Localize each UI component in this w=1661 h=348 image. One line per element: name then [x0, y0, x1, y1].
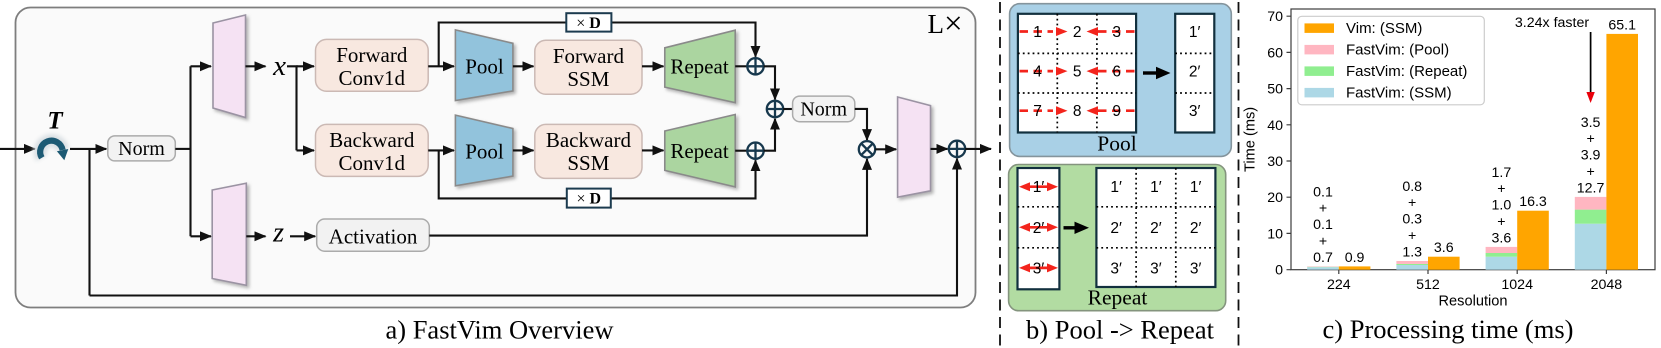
- wire multiplier to out-projection: [875, 148, 896, 150]
- wire Pool to Forward SSM: [513, 65, 534, 67]
- svg-text:+: +: [1497, 214, 1505, 230]
- wire input: [0, 148, 35, 150]
- wire Activation to multiplier: [429, 159, 867, 236]
- chart y tick labels: [1267, 9, 1283, 279]
- chart x tick marks: [1339, 270, 1607, 274]
- svg-text:7: 7: [1033, 103, 1042, 120]
- transpose icon glow: [40, 141, 62, 158]
- wire into x-projection: [191, 65, 212, 67]
- svg-text:3.9: 3.9: [1581, 148, 1601, 164]
- trapezoid z-projection: [212, 183, 246, 285]
- annotation arrow red head: [1586, 92, 1594, 103]
- separator dashed right: [1238, 2, 1240, 348]
- svg-text:40: 40: [1267, 118, 1283, 134]
- trapezoid Repeat (forward): [665, 30, 735, 102]
- svg-text:1′: 1′: [1190, 179, 1202, 196]
- svg-text:Norm: Norm: [800, 98, 847, 120]
- chart y tick marks: [1287, 16, 1292, 270]
- box Norm (first): [108, 136, 176, 161]
- svg-text:60: 60: [1267, 45, 1283, 61]
- svg-text:× D: × D: [577, 191, 602, 208]
- svg-text:70: 70: [1267, 9, 1283, 25]
- repeat input labels: [1033, 179, 1045, 277]
- separator dashed left: [999, 2, 1001, 348]
- svg-text:5: 5: [1073, 64, 1082, 81]
- trapezoid Pool (forward): [455, 30, 513, 101]
- repeat grid dotted rows: [1096, 207, 1215, 248]
- svg-text:0.7: 0.7: [1313, 250, 1333, 266]
- trapezoid x-projection: [213, 15, 246, 118]
- legend swatch FastVim SSM: [1305, 88, 1335, 98]
- svg-text:Pool: Pool: [465, 140, 504, 164]
- pool input grid box: [1018, 14, 1136, 133]
- svg-text:FastVim: (SSM): FastVim: (SSM): [1346, 85, 1452, 102]
- svg-text:+: +: [1497, 181, 1505, 197]
- svg-text:4: 4: [1033, 64, 1042, 81]
- pool big arrow: [1143, 71, 1157, 74]
- repeat grid dotted columns: [1136, 168, 1176, 287]
- svg-text:1′: 1′: [1150, 179, 1162, 196]
- svg-text:1′: 1′: [1189, 24, 1201, 41]
- svg-text:Resolution: Resolution: [1439, 294, 1508, 310]
- svg-text:+: +: [1408, 228, 1416, 244]
- svg-text:16.3: 16.3: [1519, 194, 1547, 210]
- legend swatch FastVim Pool: [1305, 45, 1335, 55]
- svg-text:1: 1: [1033, 24, 1042, 41]
- svg-text:SSM: SSM: [567, 151, 609, 175]
- svg-text:1.7: 1.7: [1492, 165, 1512, 181]
- wire out-projection to final adder: [931, 148, 948, 150]
- svg-text:+: +: [1319, 201, 1327, 217]
- wire Repeat to adder backward: [735, 150, 747, 152]
- svg-text:3′: 3′: [1189, 103, 1201, 120]
- svg-text:Pool: Pool: [465, 55, 504, 79]
- trapezoid out-projection: [898, 97, 931, 197]
- wire Forward SSM to Repeat: [642, 65, 664, 67]
- wire Norm out to branch: [175, 148, 190, 150]
- svg-text:×: ×: [944, 6, 963, 42]
- wire forward adder to merge adder: [764, 66, 775, 99]
- svg-text:8: 8: [1073, 103, 1082, 120]
- svg-text:FastVim: (Pool): FastVim: (Pool): [1346, 42, 1449, 59]
- repeat big arrow: [1064, 226, 1076, 229]
- svg-text:T: T: [47, 108, 64, 135]
- svg-text:Forward: Forward: [553, 44, 625, 68]
- svg-text:2′: 2′: [1033, 220, 1045, 237]
- repeat red double arrow row2: [1024, 226, 1053, 229]
- svg-text:1′: 1′: [1033, 179, 1045, 196]
- svg-text:+: +: [1408, 195, 1416, 211]
- box xD (top): [566, 13, 611, 31]
- wire into Forward Conv1d: [297, 65, 315, 67]
- bars 1024 fastvim stacked: [1486, 257, 1518, 270]
- repeat input box: [1018, 168, 1060, 289]
- svg-text:2′: 2′: [1150, 220, 1162, 237]
- trapezoid Repeat (backward): [665, 115, 735, 187]
- svg-text:1.0: 1.0: [1492, 198, 1512, 214]
- pool output dotted rows: [1175, 53, 1214, 93]
- svg-text:2′: 2′: [1190, 220, 1202, 237]
- svg-text:Conv1d: Conv1d: [339, 66, 406, 90]
- svg-text:0.9: 0.9: [1345, 250, 1365, 266]
- wire residual branch down: [88, 149, 90, 296]
- chart x tick labels: [1327, 277, 1622, 293]
- bars 224 fastvim stacked: [1307, 267, 1339, 270]
- svg-text:2′: 2′: [1110, 220, 1122, 237]
- svg-text:0: 0: [1275, 263, 1283, 279]
- svg-text:+: +: [1586, 131, 1594, 147]
- wire x to conv branch: [287, 66, 297, 150]
- pool red arrow row1 right: [1098, 30, 1135, 33]
- svg-text:0.1: 0.1: [1313, 217, 1333, 233]
- wire into Backward Conv1d: [297, 149, 315, 151]
- svg-text:Vim: (SSM): Vim: (SSM): [1346, 20, 1422, 37]
- wire backward adder to merge adder: [764, 119, 775, 151]
- pool red arrow row3 right: [1098, 109, 1135, 112]
- wire z to Activation: [290, 235, 315, 237]
- svg-text:0.3: 0.3: [1402, 212, 1422, 228]
- box Backward Conv1d: [316, 124, 429, 176]
- svg-text:3′: 3′: [1033, 260, 1045, 277]
- bars 2048 fastvim stacked: [1575, 224, 1607, 270]
- svg-text:Pool: Pool: [1097, 132, 1136, 156]
- panel (a) outer rounded frame: [16, 8, 976, 308]
- svg-text:SSM: SSM: [567, 67, 609, 91]
- svg-text:9: 9: [1112, 103, 1121, 120]
- wire Backward Conv1d to Pool: [428, 149, 454, 151]
- wire merge adder to Norm2: [783, 108, 792, 110]
- adder merge: [767, 101, 783, 117]
- box xD (bottom): [567, 189, 611, 208]
- repeat red double arrow row1: [1019, 182, 1058, 272]
- wire T to Norm: [70, 148, 106, 150]
- wire branch vertical: [189, 66, 191, 236]
- annotation stack 224: [1313, 15, 1636, 266]
- svg-text:0.1: 0.1: [1313, 184, 1333, 200]
- box Backward SSM: [535, 124, 642, 178]
- bar 1024 vim: [1517, 211, 1549, 270]
- svg-text:3.6: 3.6: [1492, 230, 1512, 246]
- pool red arrow row1 left: [1020, 27, 1135, 115]
- svg-text:3′: 3′: [1150, 260, 1162, 277]
- repeat red double arrow row3: [1024, 267, 1053, 270]
- svg-text:z: z: [272, 218, 284, 249]
- svg-text:x: x: [272, 50, 286, 82]
- svg-text:+: +: [1319, 234, 1327, 250]
- svg-text:a) FastVim Overview: a) FastVim Overview: [385, 315, 614, 345]
- wire forward skip branch: [439, 23, 756, 67]
- wire backward skip branch: [439, 150, 756, 198]
- svg-text:1.3: 1.3: [1402, 244, 1422, 260]
- box Activation: [317, 219, 430, 251]
- chart plot frame: [1291, 9, 1655, 270]
- pool grid dotted rows: [1018, 53, 1136, 93]
- svg-text:3.6: 3.6: [1434, 240, 1454, 256]
- wire Pool to Backward SSM: [513, 149, 534, 151]
- legend swatch Vim SSM: [1305, 23, 1335, 33]
- svg-text:3.24x faster: 3.24x faster: [1515, 15, 1589, 31]
- svg-text:Backward: Backward: [329, 128, 415, 152]
- transpose icon arrowhead: [57, 149, 68, 160]
- svg-text:Repeat: Repeat: [1088, 286, 1148, 310]
- svg-text:1′: 1′: [1110, 179, 1122, 196]
- wire into z-projection: [191, 235, 212, 237]
- annotation arrow shaft: [1590, 32, 1592, 93]
- svg-text:L: L: [928, 9, 945, 39]
- svg-text:3.5: 3.5: [1581, 115, 1601, 131]
- bars 512 fastvim stacked: [1396, 265, 1428, 270]
- repeat output grid box: [1096, 168, 1215, 287]
- svg-text:Activation: Activation: [329, 225, 418, 249]
- repeat input dotted rows: [1018, 207, 1060, 248]
- svg-text:512: 512: [1416, 277, 1440, 293]
- box Forward Conv1d: [316, 39, 429, 91]
- pool container (blue): [1010, 4, 1232, 157]
- adder forward: [747, 58, 763, 74]
- pool red arrow row2 left: [1020, 70, 1054, 73]
- svg-text:Norm: Norm: [118, 138, 165, 160]
- adder backward: [747, 143, 763, 159]
- box Forward SSM: [535, 40, 642, 94]
- trapezoid Pool (backward): [455, 115, 513, 186]
- wire Norm2 to multiplier: [855, 109, 867, 140]
- svg-text:50: 50: [1267, 82, 1283, 98]
- svg-text:3′: 3′: [1190, 260, 1202, 277]
- svg-text:1024: 1024: [1501, 277, 1533, 293]
- pool output box: [1175, 14, 1214, 133]
- legend labels: [1346, 20, 1467, 102]
- svg-text:3′: 3′: [1110, 260, 1122, 277]
- svg-text:Backward: Backward: [546, 128, 632, 152]
- svg-text:Repeat: Repeat: [670, 55, 728, 79]
- legend box: [1298, 16, 1485, 105]
- svg-text:× D: × D: [576, 15, 601, 32]
- svg-text:2048: 2048: [1591, 277, 1623, 293]
- pool output labels: [1189, 24, 1201, 120]
- bar 224 vim: [1339, 266, 1371, 269]
- adder final: [949, 141, 965, 157]
- svg-text:6: 6: [1112, 64, 1121, 81]
- svg-text:FastVim: (Repeat): FastVim: (Repeat): [1346, 63, 1467, 80]
- pool red arrow row3 left: [1020, 109, 1054, 112]
- transpose icon arc: [40, 141, 62, 158]
- svg-text:2′: 2′: [1189, 64, 1201, 81]
- svg-text:10: 10: [1267, 226, 1283, 242]
- wire Forward Conv1d to Pool: [428, 65, 454, 67]
- pool grid numbers: [1033, 24, 1121, 120]
- svg-text:0.8: 0.8: [1402, 179, 1422, 195]
- bar 512 vim: [1428, 257, 1460, 270]
- wire Backward SSM to Repeat: [642, 149, 664, 151]
- wire output: [965, 148, 991, 150]
- svg-text:+: +: [1586, 164, 1594, 180]
- wire x-projection out: [246, 65, 266, 67]
- wire residual bottom to final adder: [90, 159, 958, 296]
- wire Repeat to adder: [735, 65, 747, 67]
- svg-text:Repeat: Repeat: [670, 139, 728, 163]
- legend swatch FastVim Repeat: [1305, 66, 1335, 76]
- multiplier: [859, 141, 875, 157]
- pool grid dotted columns: [1057, 14, 1097, 133]
- svg-text:12.7: 12.7: [1577, 180, 1605, 196]
- pool red arrow row2 right: [1098, 70, 1135, 73]
- wire z-projection out: [246, 235, 265, 237]
- svg-text:3: 3: [1112, 24, 1121, 41]
- svg-text:c) Processing time (ms): c) Processing time (ms): [1323, 314, 1574, 344]
- box Norm (second): [793, 96, 855, 122]
- svg-text:30: 30: [1267, 154, 1283, 170]
- bar 2048 vim: [1606, 34, 1638, 270]
- svg-text:2: 2: [1073, 24, 1082, 41]
- svg-text:Time (ms): Time (ms): [1243, 107, 1259, 172]
- svg-text:20: 20: [1267, 190, 1283, 206]
- svg-text:Forward: Forward: [336, 43, 408, 67]
- svg-text:224: 224: [1327, 277, 1351, 293]
- svg-text:b) Pool -> Repeat: b) Pool -> Repeat: [1026, 315, 1215, 345]
- repeat container (green): [1009, 165, 1226, 311]
- svg-text:Conv1d: Conv1d: [339, 151, 406, 175]
- repeat grid labels: [1110, 179, 1201, 277]
- svg-text:65.1: 65.1: [1608, 17, 1636, 33]
